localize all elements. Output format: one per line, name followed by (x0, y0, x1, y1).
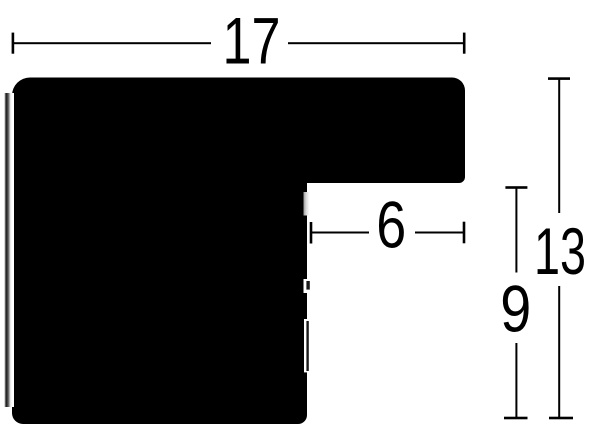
dimension 17: left line segment (14, 42, 211, 44)
dimension 13: lower line segment (558, 286, 560, 417)
svg-text:17: 17 (223, 4, 281, 78)
dimension 6: left line segment (312, 232, 369, 234)
dimension 13: top tick (548, 77, 570, 80)
dimension 9: lower line segment (515, 343, 517, 417)
svg-text:6: 6 (376, 188, 406, 262)
rabbet edge highlight dash A (304, 192, 310, 216)
dimension 17: label (223, 4, 281, 78)
dimension 6: left tick (310, 222, 313, 244)
dimension 13: bottom tick (549, 417, 573, 420)
dimension 9: top tick (505, 186, 527, 189)
dimension 6: label (376, 188, 406, 262)
dimension 13: upper line segment (558, 79, 560, 213)
dimension 9: label (500, 272, 531, 346)
moulding profile body (L-shaped cross-section) (12, 78, 465, 425)
dimension 9: upper line segment (515, 188, 517, 273)
dimension 6: right line segment (415, 232, 463, 234)
dimension 17: right line segment (288, 42, 463, 44)
dimension 17: right tick (463, 33, 466, 54)
dimension 13: label (534, 214, 586, 288)
svg-text:9: 9 (500, 272, 531, 346)
dimension 6: right tick (463, 222, 466, 244)
rabbet edge highlight stripe C (304, 319, 311, 372)
svg-text:13: 13 (534, 214, 586, 288)
dimension 9: bottom tick (504, 417, 528, 420)
rabbet edge highlight dash B (304, 279, 311, 293)
left face highlight stripe (5, 93, 14, 407)
dimension 17: left tick (12, 33, 15, 54)
